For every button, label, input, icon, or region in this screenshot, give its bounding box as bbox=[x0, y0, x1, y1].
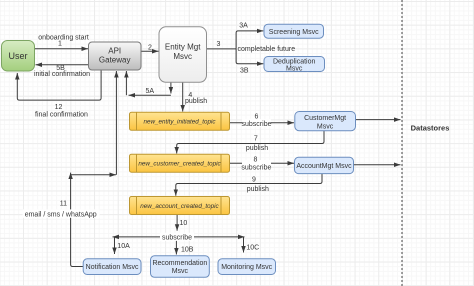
svg-text:Msvc: Msvc bbox=[173, 52, 192, 61]
svg-text:Entity Mgt: Entity Mgt bbox=[165, 43, 201, 52]
wire: AccountMgt to Datastores bbox=[354, 164, 401, 166]
wire: 10A down to Notification bbox=[114, 237, 116, 254]
svg-text:Recommendation: Recommendation bbox=[152, 260, 207, 267]
topic new_customer_created_topic bbox=[130, 154, 230, 172]
svg-text:publish: publish bbox=[246, 145, 268, 152]
wire: branch to Deduplication (3B) bbox=[236, 49, 263, 64]
svg-text:3: 3 bbox=[217, 41, 221, 48]
svg-text:10C: 10C bbox=[246, 244, 259, 251]
svg-text:final confirmation: final confirmation bbox=[35, 112, 88, 119]
node Recommendation Msvc bbox=[151, 256, 210, 277]
svg-text:10A: 10A bbox=[117, 243, 130, 250]
node CustomerMgt Msvc bbox=[295, 112, 356, 131]
svg-text:API: API bbox=[108, 47, 121, 56]
svg-text:new_entity_initiated_topic: new_entity_initiated_topic bbox=[143, 119, 216, 126]
topic new_entity_initiated_topic bbox=[130, 112, 230, 130]
svg-text:Notification Msvc: Notification Msvc bbox=[86, 264, 139, 271]
svg-text:10: 10 bbox=[180, 220, 188, 227]
svg-text:3A: 3A bbox=[239, 23, 248, 30]
svg-text:subscribe: subscribe bbox=[162, 234, 192, 241]
svg-text:Msvc: Msvc bbox=[286, 65, 303, 72]
svg-text:3B: 3B bbox=[240, 67, 249, 74]
svg-text:new_customer_created_topic: new_customer_created_topic bbox=[138, 161, 221, 168]
wire: API Gateway to Entity Mgt (2) bbox=[141, 50, 159, 52]
node Notification Msvc bbox=[83, 259, 141, 275]
svg-text:new_account_created_topic: new_account_created_topic bbox=[140, 203, 219, 210]
wire: API Gateway to User (12 final confirmation) bbox=[17, 70, 101, 100]
wire: 5A horizontal bbox=[129, 94, 171, 96]
svg-text:subscribe: subscribe bbox=[242, 121, 272, 128]
svg-text:AccountMgt Msvc: AccountMgt Msvc bbox=[296, 163, 352, 170]
wire: AccountMgt publish to topic3 (9 publish) bbox=[176, 174, 322, 196]
svg-text:subscribe: subscribe bbox=[241, 164, 271, 171]
wire: CustomerMgt publish to topic2 (7 publish) bbox=[177, 131, 324, 154]
svg-text:onboarding start: onboarding start bbox=[38, 34, 89, 41]
svg-text:Deduplication: Deduplication bbox=[273, 58, 316, 65]
wire: User to API Gateway (onboarding start 1) bbox=[35, 48, 89, 50]
wire: 5A up into API Gateway bbox=[125, 71, 127, 95]
wire: Notification to 11-corner bbox=[71, 173, 83, 267]
wire: 11 horizontal segment bbox=[71, 174, 116, 176]
wire: topic3 down to subscribe (10) bbox=[176, 215, 178, 231]
wire: API Gateway to User (5B initial confirmation) bbox=[36, 64, 89, 66]
svg-text:publish: publish bbox=[185, 98, 207, 105]
svg-text:Datastores: Datastores bbox=[411, 124, 450, 133]
node User bbox=[2, 41, 35, 72]
dashed datastores boundary line bbox=[401, 0, 403, 286]
wire: 10C down to Monitoring bbox=[243, 237, 245, 253]
svg-text:5A: 5A bbox=[146, 88, 155, 95]
svg-text:2: 2 bbox=[148, 44, 152, 51]
svg-text:Monitoring Msvc: Monitoring Msvc bbox=[221, 264, 272, 271]
svg-text:1: 1 bbox=[58, 41, 62, 48]
svg-text:12: 12 bbox=[55, 104, 63, 111]
wire: 11 up into API Gateway (email/sms/whatsApp) bbox=[115, 71, 117, 175]
node Entity Mgt Msvc bbox=[159, 27, 207, 83]
svg-text:11: 11 bbox=[60, 201, 67, 208]
svg-text:10B: 10B bbox=[181, 246, 194, 253]
node AccountMgt Msvc bbox=[295, 157, 354, 173]
svg-text:Screening Msvc: Screening Msvc bbox=[269, 29, 319, 36]
node Deduplication Msvc bbox=[264, 57, 325, 72]
svg-text:Msvc: Msvc bbox=[172, 268, 189, 275]
wire: subscribe horizontal fanout bbox=[113, 236, 245, 238]
svg-text:completable future: completable future bbox=[238, 46, 296, 53]
svg-text:8: 8 bbox=[254, 157, 258, 164]
topic new_account_created_topic bbox=[130, 197, 230, 215]
wire: CustomerMgt to Datastores bbox=[356, 119, 401, 121]
wire: topic2 to AccountMgt (8 subscribe) bbox=[230, 162, 295, 164]
svg-text:Msvc: Msvc bbox=[317, 123, 334, 130]
svg-text:initial confirmation: initial confirmation bbox=[34, 71, 90, 78]
svg-text:Gateway: Gateway bbox=[99, 56, 131, 65]
svg-text:6: 6 bbox=[255, 114, 259, 121]
node Screening Msvc bbox=[264, 24, 324, 38]
svg-text:7: 7 bbox=[254, 136, 258, 143]
wire: Entity Mgt to branch point (3) bbox=[207, 48, 236, 50]
wire: branch vertical completable future bbox=[236, 31, 263, 49]
wire: topic1 to CustomerMgt (6 subscribe) bbox=[230, 122, 295, 124]
svg-text:User: User bbox=[8, 51, 27, 61]
svg-text:email / sms / whatsApp: email / sms / whatsApp bbox=[25, 211, 97, 218]
svg-text:CustomerMgt: CustomerMgt bbox=[304, 115, 346, 122]
svg-text:publish: publish bbox=[247, 186, 269, 193]
wire: 10B down to Recommendation bbox=[175, 241, 177, 255]
svg-text:9: 9 bbox=[252, 177, 256, 184]
node API Gateway bbox=[89, 42, 142, 70]
wire: Entity Mgt down stub (to 5A corner) bbox=[170, 82, 172, 93]
node Monitoring Msvc bbox=[218, 259, 276, 275]
wire: Entity Mgt publish to topic1 (4 publish) bbox=[182, 82, 184, 111]
